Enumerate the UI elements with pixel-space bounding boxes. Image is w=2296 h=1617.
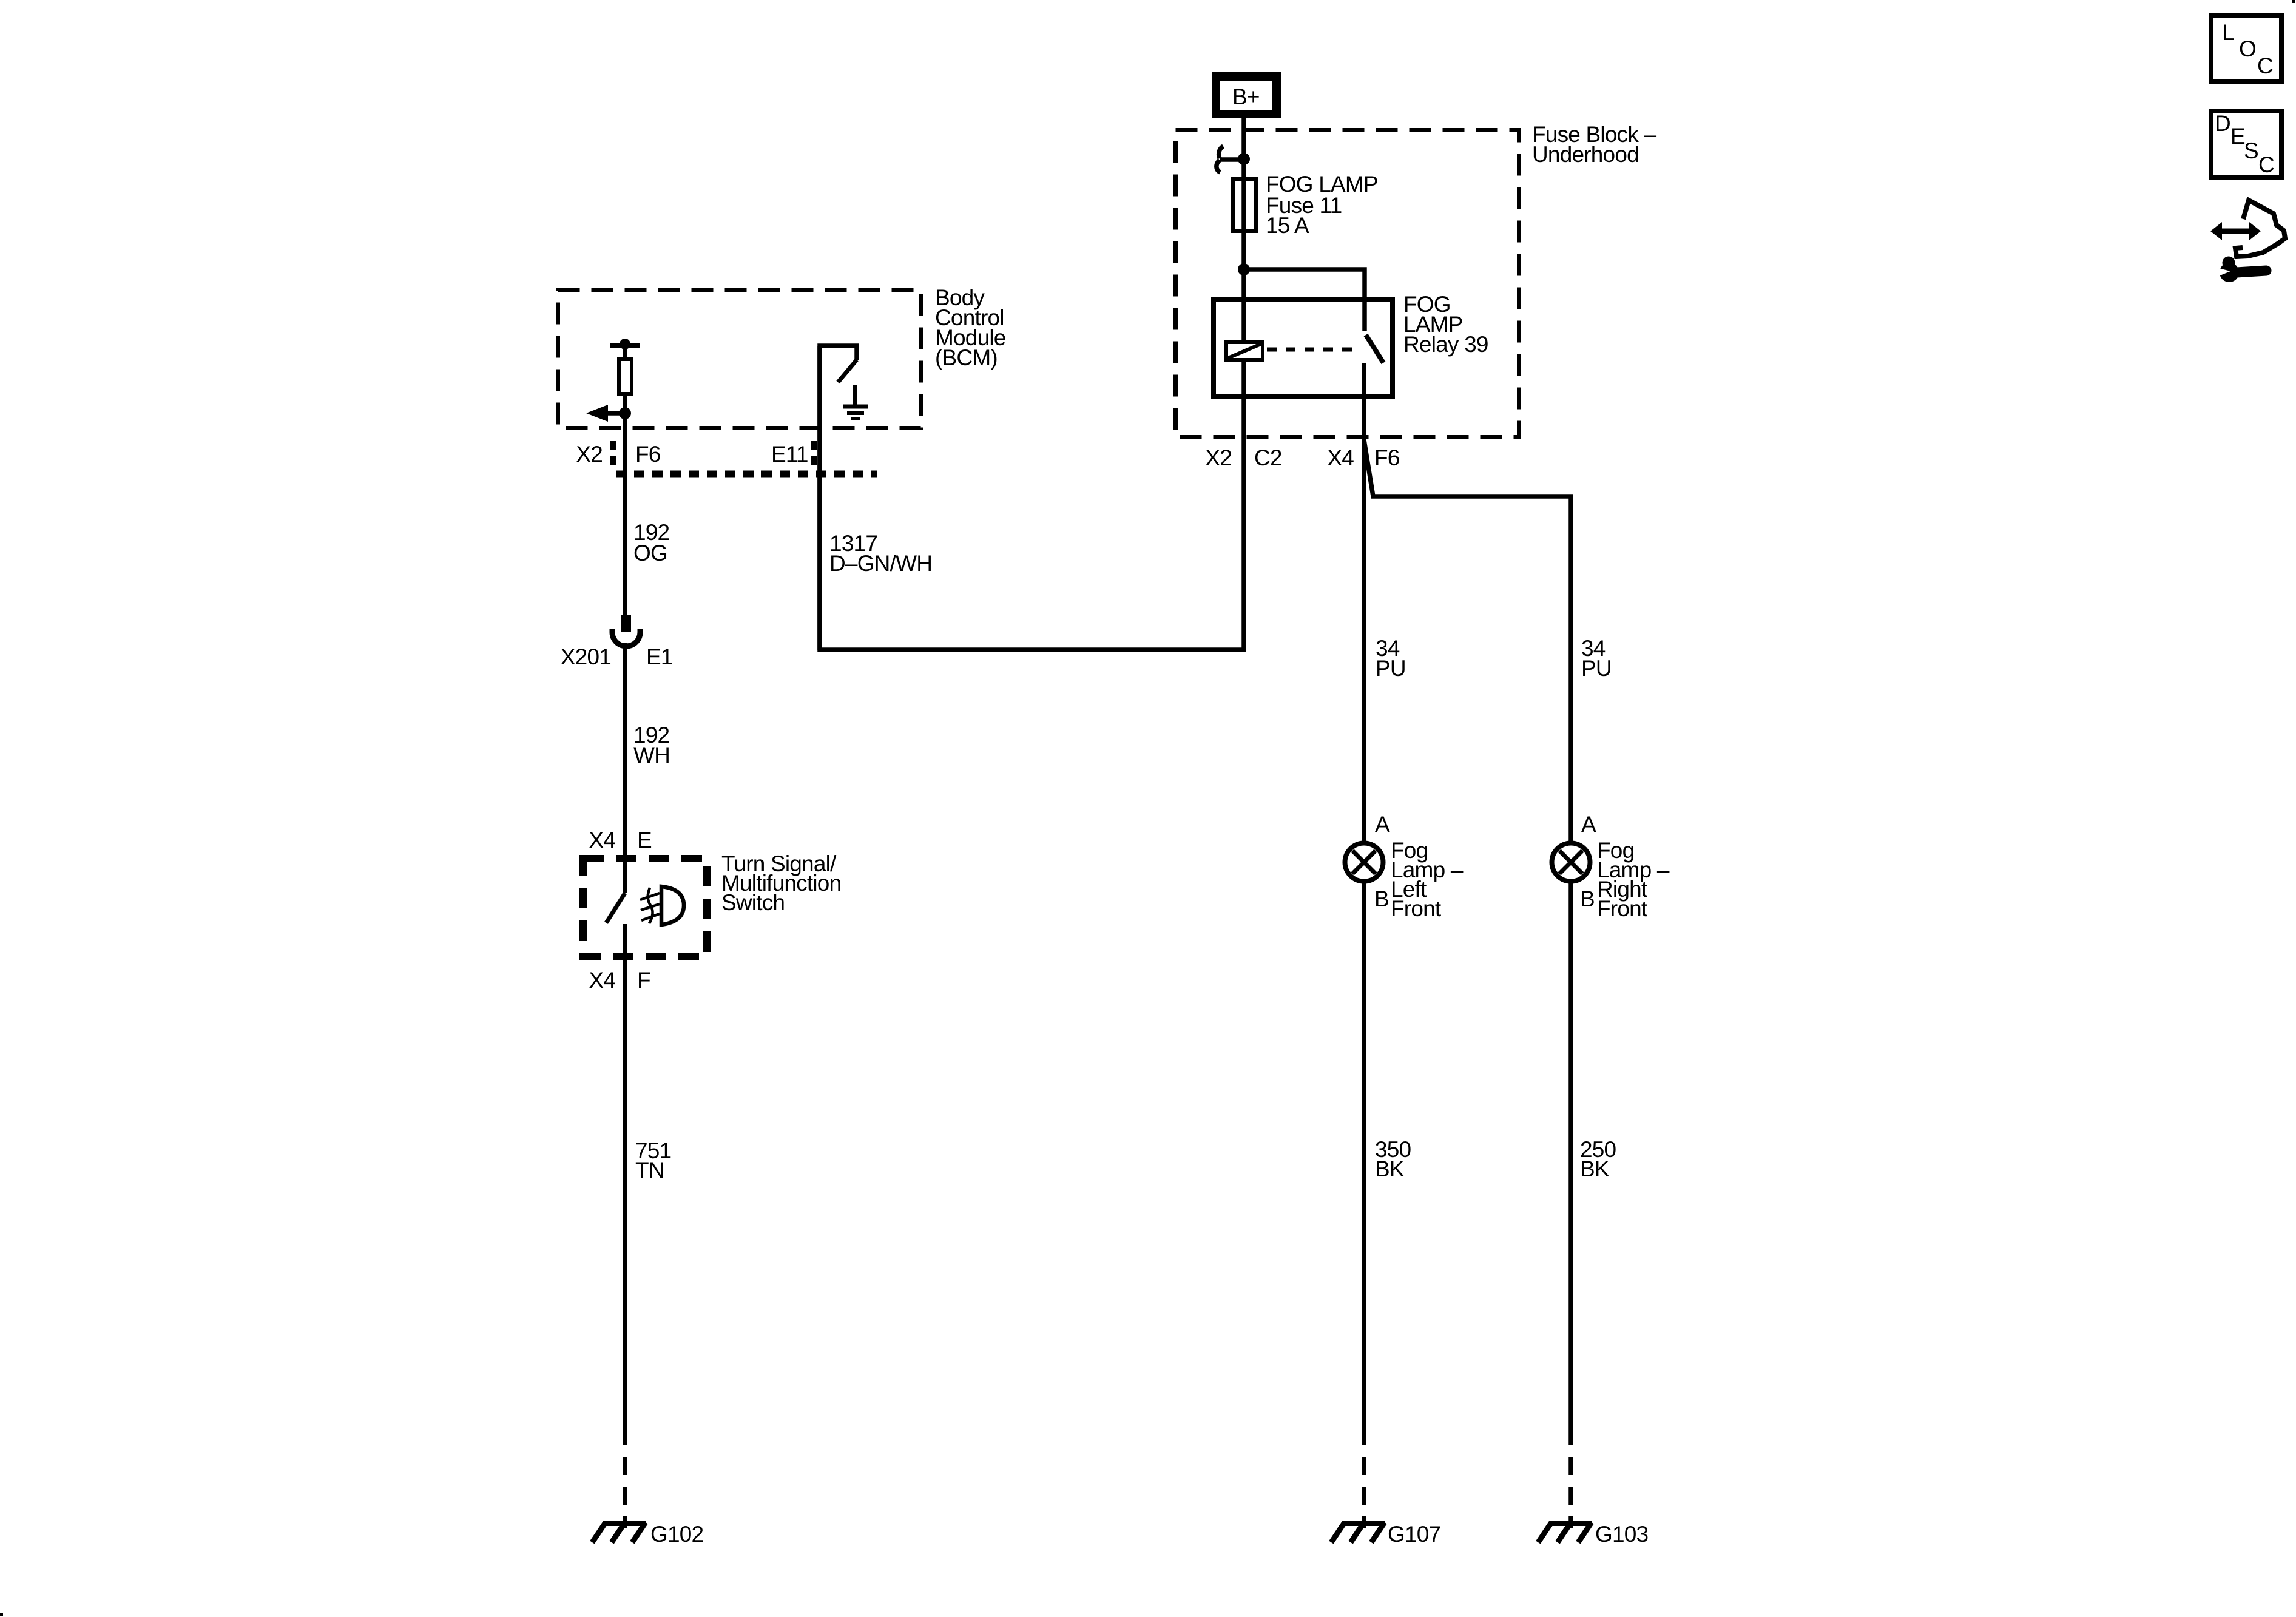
svg-text:Front: Front — [1391, 896, 1442, 921]
label FOG LAMP Fuse 11 15 A — [1266, 172, 1378, 238]
connector X4 F labels — [589, 968, 650, 993]
svg-text:X4: X4 — [1327, 445, 1354, 470]
fog switch blade — [606, 893, 625, 923]
LOC reference box — [2211, 16, 2281, 81]
wire label 34 PU left — [1376, 636, 1406, 681]
wire label 250 BK — [1580, 1137, 1616, 1181]
svg-text:Front: Front — [1597, 896, 1648, 921]
corner speck bottom left — [0, 1613, 3, 1616]
dashed coil-contact link — [1267, 348, 1359, 352]
svg-text:B: B — [1374, 886, 1389, 911]
wire label 751 TN — [635, 1138, 671, 1183]
Body Control Module dashed box — [558, 290, 921, 428]
svg-text:F: F — [637, 968, 650, 993]
relay coil — [1226, 342, 1263, 360]
label Body Control Module (BCM) — [935, 285, 1006, 370]
Fuse Block - Underhood dashed box — [1176, 130, 1519, 437]
svg-text:B+: B+ — [1232, 84, 1260, 109]
svg-text:OG: OG — [633, 541, 667, 565]
junction dot at clip — [1238, 153, 1250, 165]
svg-text:Switch: Switch — [721, 890, 785, 915]
svg-text:G107: G107 — [1388, 1522, 1440, 1547]
wire relay contact to left fog lamp — [1362, 363, 1366, 843]
svg-text:Underhood: Underhood — [1532, 142, 1639, 167]
svg-text:X2: X2 — [1205, 445, 1232, 470]
Fog Lamp - Left Front bulb — [1345, 843, 1383, 882]
service icon arrow — [2210, 222, 2261, 240]
svg-text:PU: PU — [1581, 656, 1612, 681]
svg-text:S: S — [2244, 138, 2258, 163]
label Fuse Block - Underhood — [1532, 122, 1656, 167]
junction dot below fuse — [1238, 263, 1250, 275]
svg-text:PU: PU — [1376, 656, 1406, 681]
wire fuse to coil — [1241, 269, 1246, 340]
B+ power feed box — [1216, 76, 1277, 114]
service icon outline — [2235, 200, 2285, 257]
wire branch to right fog lamp — [1364, 440, 1571, 843]
BCM ground switch E11 — [820, 346, 857, 650]
svg-text:G103: G103 — [1595, 1522, 1648, 1547]
svg-text:TN: TN — [635, 1158, 664, 1183]
label Fog Lamp Right Front — [1597, 838, 1670, 921]
service icon wrench — [2214, 257, 2266, 283]
relay contact blade — [1366, 335, 1383, 363]
svg-text:E11: E11 — [771, 442, 808, 467]
wire switch to G102 — [623, 924, 627, 1445]
svg-text:(BCM): (BCM) — [935, 345, 998, 370]
svg-text:A: A — [1581, 812, 1596, 837]
svg-text:B: B — [1580, 886, 1595, 911]
svg-text:E: E — [2230, 124, 2245, 149]
svg-text:C2: C2 — [1254, 445, 1282, 470]
svg-text:D–GN/WH: D–GN/WH — [829, 551, 932, 576]
Turn Signal Multifunction Switch dashed box — [583, 859, 707, 956]
svg-text:O: O — [2239, 36, 2256, 61]
svg-text:15 A: 15 A — [1266, 213, 1309, 238]
wire X201 to switch — [623, 643, 627, 893]
svg-text:E: E — [637, 828, 652, 852]
fuse clip symbol — [1217, 146, 1244, 172]
svg-text:C: C — [2257, 53, 2273, 78]
dashed wire to G102 — [623, 1457, 627, 1528]
FOG LAMP Relay 39 box — [1214, 300, 1393, 397]
svg-text:E1: E1 — [646, 644, 673, 669]
dashed wire to G107 — [1362, 1457, 1366, 1528]
dashed wire to G103 — [1568, 1457, 1573, 1528]
BCM internal ground — [843, 385, 868, 419]
wire junction to relay switch — [1244, 269, 1365, 331]
svg-text:BK: BK — [1580, 1156, 1610, 1181]
svg-text:X4: X4 — [589, 828, 615, 852]
wire resistor to X201 — [623, 394, 627, 615]
wire left lamp to ground — [1362, 882, 1366, 1445]
svg-text:A: A — [1375, 812, 1390, 837]
wire B+ to fuse block — [1241, 118, 1246, 269]
wire label 350 BK — [1375, 1137, 1411, 1181]
ground G102 — [592, 1522, 703, 1547]
svg-text:F6: F6 — [635, 442, 661, 467]
label Fog Lamp Left Front — [1391, 838, 1464, 921]
ground G107 — [1331, 1522, 1440, 1547]
BCM output arrow — [586, 405, 625, 422]
connector X2 C2 labels — [1205, 445, 1281, 470]
svg-text:L: L — [2222, 20, 2234, 45]
wire label 1317 D-GN/WH — [829, 531, 932, 576]
junction dot below resistor — [619, 407, 631, 419]
wire right lamp to ground — [1568, 882, 1573, 1445]
svg-text:BK: BK — [1375, 1156, 1405, 1181]
connector X4 F6 labels — [1327, 445, 1399, 470]
wire label 34 PU right — [1581, 636, 1612, 681]
ground G103 — [1538, 1522, 1648, 1547]
svg-text:WH: WH — [633, 743, 670, 768]
svg-text:X2: X2 — [576, 442, 603, 467]
fog lamp icon — [640, 886, 684, 925]
svg-text:D: D — [2215, 111, 2230, 136]
svg-text:X201: X201 — [561, 644, 611, 669]
label FOG LAMP Relay 39 — [1403, 292, 1488, 357]
inline connector X201 E1 — [561, 615, 673, 669]
corner speck top right — [2292, 0, 2295, 3]
BCM driver (resistor) element — [610, 339, 640, 394]
wire coil to X2 C2 down to BCM link — [820, 346, 1244, 650]
label Turn Signal Multifunction Switch — [721, 851, 841, 915]
svg-text:F6: F6 — [1374, 445, 1400, 470]
svg-text:G102: G102 — [650, 1522, 703, 1547]
svg-text:Relay 39: Relay 39 — [1403, 332, 1488, 357]
svg-text:X4: X4 — [589, 968, 615, 993]
Fog Lamp - Right Front bulb — [1552, 843, 1590, 882]
svg-text:C: C — [2258, 152, 2274, 177]
BCM connector band X2 F6 E11 — [576, 441, 877, 474]
wire label 192 WH — [633, 723, 670, 768]
fuse FOG LAMP Fuse 11 15A — [1233, 179, 1256, 231]
connector X4 E labels — [589, 828, 652, 852]
wire label 192 OG — [633, 520, 669, 565]
DESC reference box — [2211, 111, 2281, 177]
